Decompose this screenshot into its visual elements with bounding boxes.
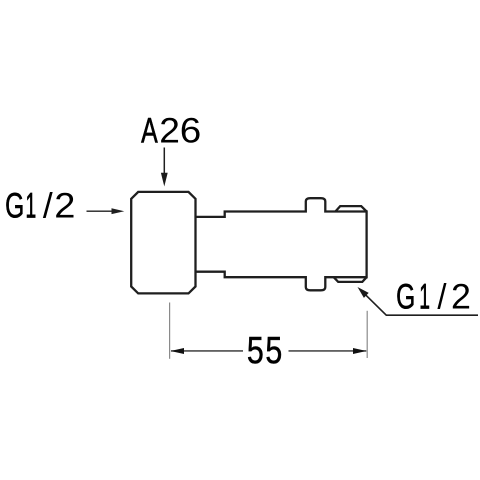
- svg-text:2: 2: [159, 110, 180, 150]
- thread crest bottom: [334, 277, 367, 282]
- svg-text:5: 5: [247, 330, 264, 372]
- svg-text:1: 1: [419, 276, 430, 316]
- svg-text:6: 6: [180, 111, 202, 150]
- leader line for G1/2 right: [362, 291, 479, 315]
- dimension 55: dimension line right segment: [289, 350, 367, 352]
- svg-text:/: /: [43, 186, 53, 225]
- dimension 55: right arrowhead: [353, 348, 367, 354]
- nut (hex flats, left body): [131, 192, 195, 294]
- label G1/2 right: [396, 276, 471, 316]
- leader arrow for G1/2 left: [87, 210, 114, 212]
- svg-text:1: 1: [25, 185, 36, 225]
- label A26: [141, 110, 201, 150]
- dimension 55: right extension line: [366, 311, 368, 358]
- dimension 55: left extension line: [169, 303, 171, 359]
- leader arrow for A26: [163, 148, 165, 179]
- label G1/2 left: [5, 185, 75, 225]
- svg-text:A: A: [141, 111, 158, 150]
- svg-text:G: G: [5, 187, 24, 225]
- svg-text:2: 2: [54, 186, 75, 225]
- dimension 55: left arrowhead: [171, 348, 185, 354]
- thread crest top: [335, 206, 366, 211]
- svg-text:/: /: [437, 277, 447, 316]
- fitting body profile (neck, shaft, collar, thread end): [196, 198, 367, 290]
- dimension 55: dimension line left segment: [171, 350, 243, 352]
- svg-text:G: G: [396, 278, 415, 316]
- svg-text:2: 2: [451, 277, 471, 317]
- svg-text:5: 5: [265, 330, 282, 372]
- dimension text 55: [247, 330, 282, 372]
